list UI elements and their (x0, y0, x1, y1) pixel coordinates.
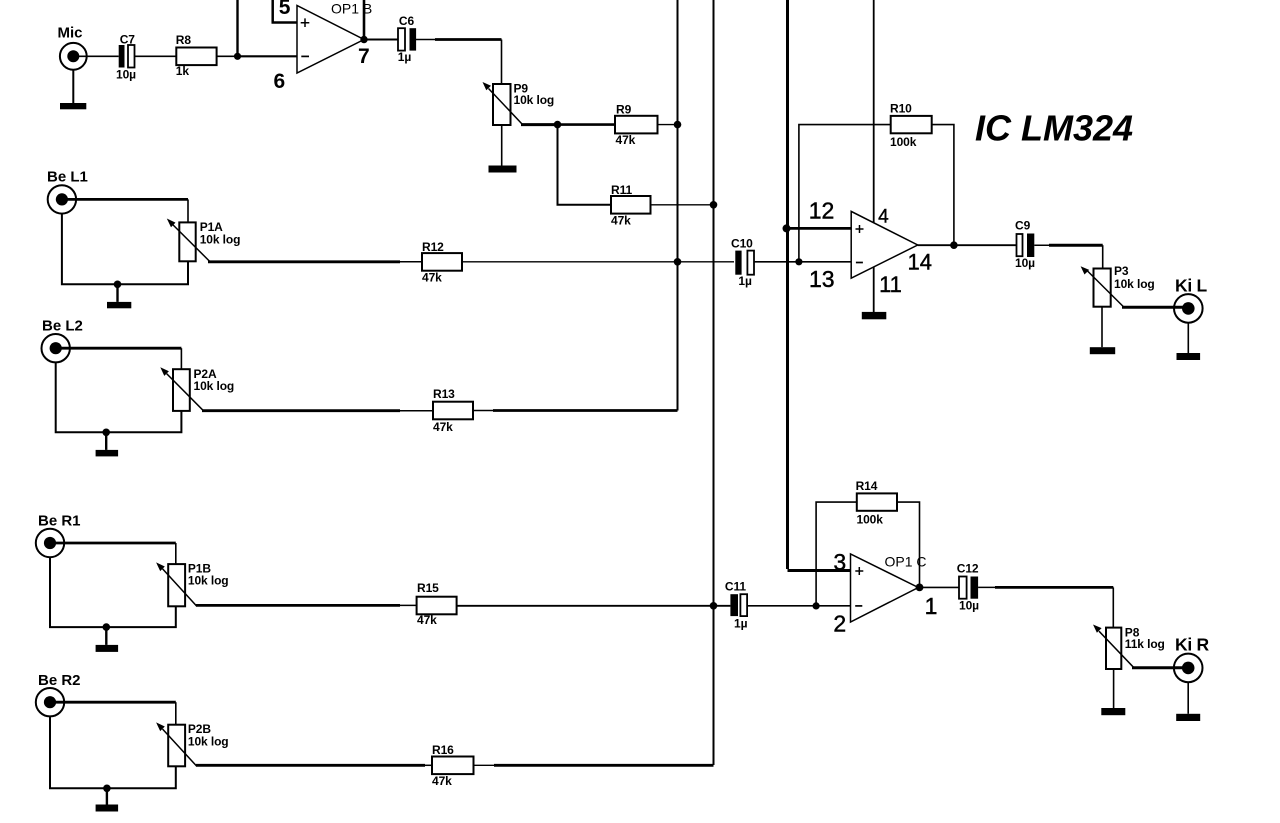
resistor R11 value 47k (611, 196, 651, 214)
op-amp OP1 B (297, 6, 364, 74)
svg-text:10k log: 10k log (514, 93, 555, 107)
wire C11 to OP1C pin 2 (747, 605, 850, 607)
svg-text:10k log: 10k log (194, 379, 235, 393)
ground (P8) (1113, 669, 1115, 708)
wire Mic to C7 (73, 55, 118, 57)
wire R13 to left bus corner (473, 410, 494, 412)
wire P8 wiper to Ki R (1132, 666, 1188, 669)
svg-text:3: 3 (833, 549, 846, 575)
wire feedback left leg (799, 125, 891, 262)
wire P1A wiper to R12 (208, 260, 400, 263)
capacitor C10 value 1µ (735, 251, 741, 275)
wire vertical bus to top at x=364 (363, 0, 366, 40)
wire R8 to OP1B inverting input (216, 55, 237, 57)
svg-text:10k log: 10k log (200, 232, 241, 246)
wire OP1B output to C6 (364, 39, 398, 41)
svg-text:47k: 47k (611, 213, 631, 227)
wire OP1C output to C12 (918, 586, 959, 588)
ground (Be R2) (106, 788, 108, 804)
node R15/C11/right bus junction (710, 602, 718, 610)
node R9 to bus (674, 121, 682, 129)
svg-text:R16: R16 (432, 743, 454, 757)
potentiometer P9 value 10k log (493, 84, 511, 125)
ground (Be R1) (105, 627, 107, 645)
capacitor C6 value 1µ (398, 28, 405, 50)
wire feedback left leg R14 (816, 502, 857, 606)
node pin12 junction (783, 224, 791, 232)
ground (P9) (501, 125, 503, 166)
wire feedback right leg R14 (897, 502, 920, 587)
capacitor C9 value 10µ (1017, 234, 1023, 256)
wire pin 13 input (753, 261, 851, 263)
svg-text:R13: R13 (433, 387, 455, 401)
svg-text:47k: 47k (616, 133, 636, 147)
resistor R12 value 47k (422, 253, 462, 271)
svg-text:1µ: 1µ (398, 50, 412, 64)
connector Be R2 (36, 688, 64, 716)
svg-text:Be L2: Be L2 (42, 318, 83, 335)
node output feedback junction (950, 241, 958, 249)
svg-text:10µ: 10µ (1015, 256, 1035, 270)
wire R11 to right bus (651, 204, 714, 206)
wire OP2 output to C9 (918, 244, 1017, 246)
potentiometer P1B value 10k log (168, 564, 185, 606)
svg-text:10µ: 10µ (959, 598, 979, 612)
svg-text:47k: 47k (417, 613, 437, 627)
connector Be L1 (48, 185, 76, 213)
node ground junction L1 (114, 281, 122, 289)
wire Be R1 ground loop (50, 557, 176, 627)
svg-text:C7: C7 (120, 33, 136, 47)
wire P9 wiper to summing node (521, 123, 558, 126)
wire P3 wiper to Ki L (1122, 306, 1188, 309)
svg-text:1µ: 1µ (734, 617, 748, 631)
svg-text:10µ: 10µ (116, 67, 136, 81)
wire Be R2 ground loop (50, 716, 176, 788)
resistor R13 value 47k (433, 402, 473, 420)
resistor R8 value 1k (176, 48, 216, 66)
svg-text:C11: C11 (725, 579, 746, 593)
svg-text:R14: R14 (856, 479, 878, 493)
connector Be R1 (36, 529, 64, 557)
node pin13 feedback junction (795, 258, 802, 265)
svg-text:100k: 100k (890, 135, 917, 149)
node R11 to bus (710, 201, 718, 209)
svg-text:C10: C10 (731, 237, 753, 251)
node ground junction R2 (103, 785, 111, 793)
node R12 to left bus (674, 258, 682, 266)
svg-text:OP1 B: OP1 B (331, 1, 372, 17)
ground (Be L2) (105, 432, 107, 450)
svg-text:R8: R8 (176, 33, 192, 47)
wire Be L2 to P2A top (56, 347, 182, 350)
svg-text:Be R1: Be R1 (38, 513, 81, 530)
wire Be L2 ground loop (56, 362, 182, 432)
potentiometer P2B value 10k log (168, 725, 185, 767)
capacitor C11 value 1µ (730, 594, 738, 616)
potentiometer P2A value 10k log (173, 369, 190, 411)
svg-text:1k: 1k (176, 64, 190, 78)
wire R9 to left bus (658, 124, 678, 126)
svg-text:Be L1: Be L1 (47, 169, 88, 186)
svg-text:13: 13 (809, 266, 835, 292)
wire C7 to R8 (135, 55, 177, 57)
wire Be L1 ground loop (62, 214, 188, 285)
svg-text:R15: R15 (417, 581, 439, 595)
wire R16 to right bus corner (474, 764, 496, 766)
op-amp U2 (LM324 A, pins 12/13/14) (851, 211, 918, 278)
ground (Be L1) (116, 284, 118, 302)
svg-text:R12: R12 (422, 240, 444, 254)
wire Be R2 to P2B top (50, 701, 176, 704)
wire Be R1 to P1B top (50, 542, 176, 545)
wire C6 to P9 (416, 39, 437, 41)
wire supply bus x=873.7 (873, 0, 875, 223)
ground (Ki R) (1187, 682, 1189, 714)
svg-text:10k log: 10k log (188, 574, 229, 588)
node OP1B output (360, 36, 367, 43)
wire P2A wiper to R13 (202, 409, 400, 412)
connector Ki R (1174, 654, 1203, 683)
svg-text:6: 6 (274, 70, 285, 93)
ground (Mic) (72, 70, 74, 104)
svg-text:R9: R9 (616, 103, 632, 117)
potentiometer P1A value 10k log (179, 222, 195, 261)
svg-text:12: 12 (809, 198, 835, 224)
resistor R9 value 47k (615, 116, 658, 134)
wire P1B wiper to R15 (196, 604, 400, 607)
svg-text:10k log: 10k log (1114, 277, 1155, 291)
connector Ki L (1174, 294, 1203, 323)
capacitor C7 value 10µ (119, 45, 125, 68)
wire right mix bus x=713.5 (713, 0, 715, 765)
wire C12 to P8 (978, 586, 997, 588)
wire R12 to bus (461, 261, 734, 263)
svg-text:Ki R: Ki R (1175, 635, 1209, 655)
connector Be L2 (42, 334, 70, 362)
svg-text:11k log: 11k log (1125, 637, 1165, 651)
svg-text:100k: 100k (857, 513, 884, 527)
wire Be L1 to P1A top (62, 198, 188, 201)
wire C9 to P3 (1034, 244, 1051, 246)
wire left mix bus x=677.5 (677, 0, 679, 411)
resistor R16 value 47k (432, 757, 474, 775)
svg-text:4: 4 (878, 206, 889, 227)
svg-text:Ki L: Ki L (1175, 275, 1207, 295)
svg-text:47k: 47k (422, 271, 442, 285)
svg-text:47k: 47k (432, 774, 452, 788)
svg-text:C9: C9 (1015, 219, 1031, 233)
svg-text:11: 11 (879, 272, 902, 297)
svg-text:IC LM324: IC LM324 (975, 108, 1133, 149)
resistor R15 value 47k (417, 597, 457, 615)
svg-text:C6: C6 (399, 14, 415, 28)
ground (pin 11) (862, 312, 887, 319)
svg-text:7: 7 (358, 45, 369, 68)
node junction at R8 output (234, 53, 241, 60)
potentiometer P8 value 11k log (1106, 628, 1121, 669)
wire vertical bus to top at x=237.5 (236, 0, 238, 56)
op-amp OP1 C (pins 3/2/1) (851, 554, 919, 622)
ground (P3) (1101, 307, 1103, 348)
wire feedback right leg (932, 125, 954, 246)
wire bus x=787.5 from top to OP1C pin 3 (788, 0, 851, 571)
node ground junction L2 (102, 429, 110, 437)
node summing junction (554, 121, 562, 129)
svg-text:R10: R10 (890, 102, 912, 116)
svg-text:5: 5 (279, 0, 291, 19)
resistor R10 value 100k (891, 116, 932, 133)
capacitor C12 value 10µ (959, 577, 967, 599)
svg-text:Mic: Mic (58, 25, 83, 42)
potentiometer P3 value 10k log (1094, 269, 1111, 307)
wire junction to R9 (558, 123, 616, 126)
svg-text:1µ: 1µ (738, 274, 752, 288)
resistor R14 value 100k (857, 493, 897, 510)
svg-text:14: 14 (908, 250, 932, 275)
node OP1C output junction (916, 584, 924, 592)
wire P2B wiper to R16 (196, 764, 425, 767)
svg-text:10k log: 10k log (188, 734, 229, 748)
connector Mic (60, 43, 87, 70)
svg-text:C12: C12 (957, 562, 979, 576)
wire R15 to C11 junction (457, 605, 731, 607)
svg-text:2: 2 (833, 611, 846, 637)
pin 5 box (271, 0, 274, 23)
node pin2 feedback junction (813, 602, 820, 609)
wire junction to OP1A + input (pin 12) (788, 227, 852, 230)
wire down from summing node to R11 (558, 125, 612, 205)
node ground junction R1 (103, 623, 111, 631)
svg-text:R11: R11 (611, 183, 632, 197)
svg-text:1: 1 (925, 593, 938, 619)
svg-text:Be R2: Be R2 (38, 672, 81, 689)
svg-text:47k: 47k (433, 420, 453, 434)
ground (Ki L) (1187, 323, 1189, 353)
